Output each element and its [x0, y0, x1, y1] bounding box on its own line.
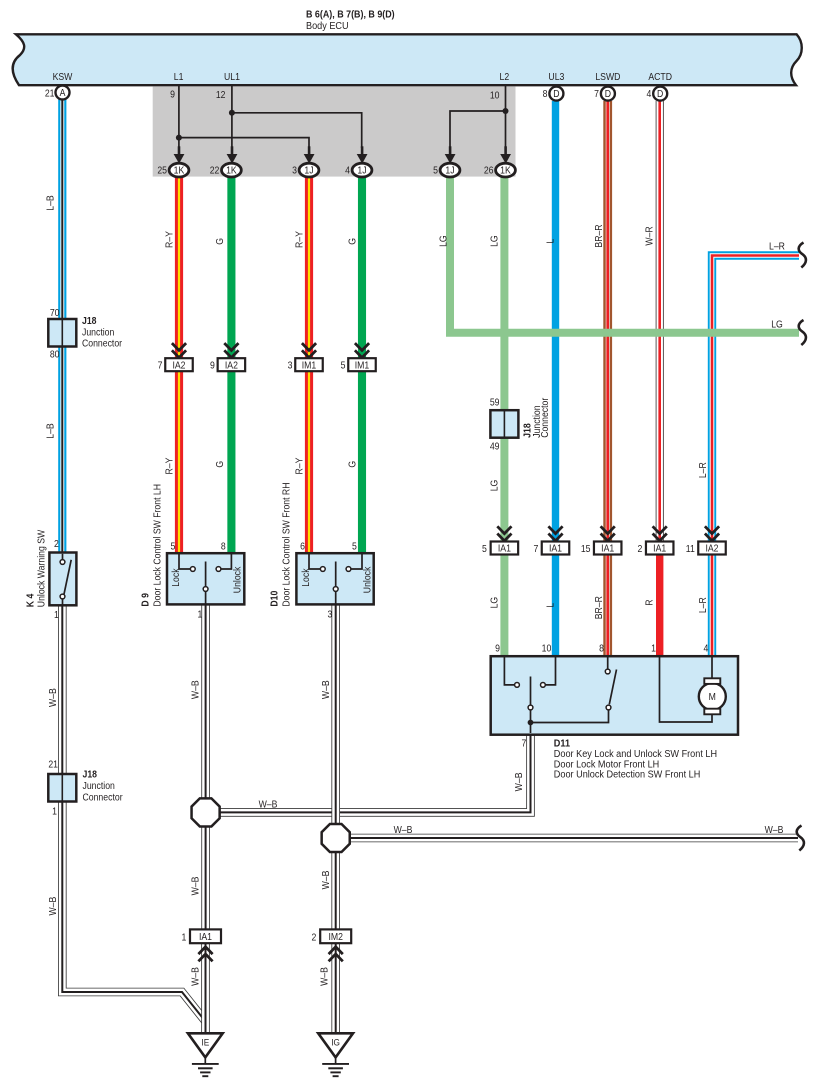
- svg-text:G: G: [347, 238, 358, 245]
- svg-text:1: 1: [181, 932, 186, 943]
- svg-text:L–B: L–B: [45, 195, 56, 210]
- svg-text:4: 4: [703, 643, 708, 654]
- svg-text:80: 80: [50, 349, 60, 360]
- svg-text:M: M: [709, 691, 716, 702]
- svg-text:W–B: W–B: [47, 688, 58, 707]
- svg-text:R: R: [644, 599, 655, 605]
- svg-text:1K: 1K: [174, 165, 185, 176]
- svg-text:LG: LG: [438, 235, 449, 247]
- svg-text:B 6(A), B 7(B), B 9(D): B 6(A), B 7(B), B 9(D): [306, 9, 395, 21]
- svg-text:2: 2: [54, 538, 59, 549]
- svg-text:21: 21: [45, 88, 55, 99]
- svg-text:R–Y: R–Y: [294, 457, 305, 475]
- svg-text:9: 9: [170, 89, 175, 100]
- svg-text:W–B: W–B: [765, 824, 784, 835]
- svg-text:3: 3: [292, 165, 297, 176]
- svg-text:G: G: [214, 238, 225, 245]
- svg-text:5: 5: [341, 360, 346, 371]
- svg-text:LSWD: LSWD: [595, 72, 620, 83]
- svg-text:8: 8: [543, 89, 548, 100]
- svg-text:10: 10: [490, 90, 500, 101]
- svg-text:L–R: L–R: [769, 241, 785, 252]
- svg-text:5: 5: [433, 165, 438, 176]
- svg-text:A: A: [60, 87, 66, 98]
- svg-text:LG: LG: [771, 319, 783, 330]
- svg-text:D 9: D 9: [140, 593, 151, 607]
- svg-text:Body ECU: Body ECU: [306, 20, 349, 32]
- svg-text:L: L: [545, 603, 556, 608]
- svg-text:7: 7: [594, 89, 599, 100]
- svg-text:49: 49: [490, 441, 500, 452]
- svg-text:Unlock Warning SW: Unlock Warning SW: [36, 530, 47, 608]
- svg-text:2: 2: [637, 543, 642, 554]
- svg-text:J18: J18: [83, 769, 98, 780]
- svg-text:BR–R: BR–R: [593, 596, 604, 619]
- svg-text:12: 12: [216, 89, 226, 100]
- svg-text:1K: 1K: [226, 165, 237, 176]
- svg-text:L–R: L–R: [698, 597, 709, 613]
- svg-text:5: 5: [482, 543, 487, 554]
- svg-text:9: 9: [210, 360, 215, 371]
- svg-text:R–Y: R–Y: [164, 457, 175, 475]
- svg-text:L–B: L–B: [45, 423, 56, 438]
- svg-text:59: 59: [490, 397, 500, 408]
- svg-text:L1: L1: [174, 72, 184, 83]
- svg-text:W–B: W–B: [190, 680, 201, 699]
- svg-text:D: D: [657, 88, 663, 99]
- svg-text:Door Lock Control SW Front RH: Door Lock Control SW Front RH: [281, 483, 292, 607]
- svg-text:26: 26: [484, 165, 494, 176]
- svg-text:1J: 1J: [357, 165, 366, 176]
- svg-text:Unlock: Unlock: [362, 566, 373, 593]
- svg-text:7: 7: [521, 738, 526, 749]
- svg-text:1J: 1J: [304, 165, 313, 176]
- svg-text:BR–R: BR–R: [593, 224, 604, 247]
- svg-text:G: G: [347, 461, 358, 468]
- svg-text:W–B: W–B: [394, 824, 413, 835]
- svg-text:ACTD: ACTD: [648, 72, 672, 83]
- svg-text:R–Y: R–Y: [294, 230, 305, 248]
- svg-text:6: 6: [300, 541, 305, 552]
- svg-text:IM2: IM2: [328, 931, 342, 942]
- svg-text:Lock: Lock: [300, 568, 311, 587]
- svg-text:IE: IE: [201, 1037, 209, 1048]
- svg-text:W–B: W–B: [190, 877, 201, 896]
- svg-text:7: 7: [158, 360, 163, 371]
- svg-text:Lock: Lock: [171, 568, 182, 587]
- svg-text:W–B: W–B: [259, 799, 278, 810]
- svg-text:9: 9: [495, 643, 500, 654]
- svg-text:1: 1: [651, 643, 656, 654]
- svg-text:25: 25: [157, 165, 167, 176]
- svg-text:UL3: UL3: [548, 72, 564, 83]
- svg-text:D: D: [605, 88, 611, 99]
- svg-text:W–B: W–B: [320, 680, 331, 699]
- svg-text:11: 11: [686, 543, 695, 554]
- svg-text:LG: LG: [489, 597, 500, 609]
- svg-text:L2: L2: [500, 72, 510, 83]
- svg-text:L–R: L–R: [698, 462, 709, 478]
- svg-text:22: 22: [210, 165, 220, 176]
- svg-text:W–B: W–B: [190, 967, 201, 986]
- svg-text:5: 5: [352, 541, 357, 552]
- svg-text:21: 21: [48, 759, 58, 770]
- svg-text:8: 8: [221, 541, 226, 552]
- svg-text:IA1: IA1: [498, 543, 511, 554]
- svg-text:Door Unlock Detection SW Front: Door Unlock Detection SW Front LH: [554, 769, 701, 781]
- svg-text:Junction: Junction: [82, 327, 114, 338]
- svg-text:1J: 1J: [445, 165, 454, 176]
- svg-text:IM1: IM1: [355, 360, 369, 371]
- svg-text:D: D: [553, 88, 559, 99]
- svg-text:4: 4: [345, 165, 350, 176]
- svg-text:R–Y: R–Y: [164, 230, 175, 248]
- svg-text:Door Lock Control SW Front LH: Door Lock Control SW Front LH: [152, 484, 163, 607]
- svg-text:1: 1: [54, 609, 59, 620]
- svg-text:Connector: Connector: [83, 792, 123, 803]
- svg-text:Connector: Connector: [82, 338, 122, 349]
- svg-text:W–B: W–B: [513, 772, 524, 791]
- svg-text:8: 8: [599, 643, 604, 654]
- svg-text:L: L: [545, 239, 556, 244]
- svg-text:IA2: IA2: [172, 360, 185, 371]
- svg-text:UL1: UL1: [224, 72, 240, 83]
- svg-text:Unlock: Unlock: [232, 566, 243, 593]
- svg-text:W–B: W–B: [319, 967, 330, 986]
- svg-text:G: G: [214, 461, 225, 468]
- svg-text:1K: 1K: [500, 165, 511, 176]
- svg-text:3: 3: [288, 360, 293, 371]
- svg-text:2: 2: [312, 932, 317, 943]
- svg-text:Connector: Connector: [539, 398, 550, 438]
- svg-text:D10: D10: [269, 591, 280, 607]
- svg-text:IA1: IA1: [653, 543, 666, 554]
- svg-text:IA2: IA2: [225, 360, 238, 371]
- svg-text:W–B: W–B: [47, 897, 58, 916]
- svg-text:IA1: IA1: [601, 543, 614, 554]
- svg-text:IG: IG: [331, 1037, 340, 1048]
- svg-text:1: 1: [52, 806, 57, 817]
- svg-text:4: 4: [646, 89, 651, 100]
- svg-text:LG: LG: [489, 235, 500, 247]
- svg-text:10: 10: [542, 643, 552, 654]
- svg-text:IA1: IA1: [199, 931, 212, 942]
- svg-text:70: 70: [50, 307, 60, 318]
- svg-text:J18: J18: [82, 315, 97, 326]
- svg-text:3: 3: [328, 609, 333, 620]
- svg-text:KSW: KSW: [53, 72, 73, 83]
- svg-text:15: 15: [581, 543, 591, 554]
- svg-text:5: 5: [170, 541, 175, 552]
- svg-text:IA2: IA2: [705, 543, 718, 554]
- svg-text:W–B: W–B: [320, 871, 331, 890]
- svg-text:K 4: K 4: [25, 593, 36, 607]
- svg-text:Junction: Junction: [83, 780, 115, 791]
- svg-text:1: 1: [197, 609, 202, 620]
- svg-text:LG: LG: [489, 480, 500, 492]
- svg-text:IA1: IA1: [549, 543, 562, 554]
- svg-text:W–R: W–R: [644, 226, 655, 246]
- svg-text:IM1: IM1: [302, 360, 316, 371]
- svg-text:7: 7: [533, 543, 538, 554]
